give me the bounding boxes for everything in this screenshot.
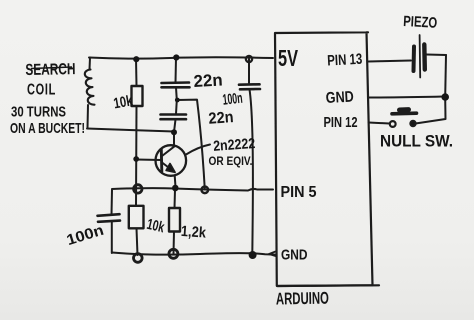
- label SEARCH: [25, 61, 75, 79]
- svg-text:COIL: COIL: [27, 82, 56, 99]
- node gnd-piezo-sw junction: [441, 93, 449, 101]
- svg-text:5V: 5V: [278, 45, 298, 71]
- wire GND right lead: [369, 97, 445, 98]
- svg-text:100n: 100n: [222, 90, 244, 109]
- wire piezo right vertical: [444, 55, 447, 97]
- svg-text:SEARCH: SEARCH: [25, 61, 75, 79]
- node base junction: [133, 156, 139, 162]
- svg-text:ON A BUCKET!: ON A BUCKET!: [10, 120, 85, 137]
- svg-text:GND: GND: [281, 247, 308, 264]
- piezo BZ1: [414, 35, 447, 78]
- svg-text:2n2222: 2n2222: [213, 136, 256, 155]
- svg-text:1,2k: 1,2k: [180, 223, 207, 242]
- wire PIN5 line: [112, 188, 273, 190]
- node gnd-1,2k junction: [169, 249, 178, 258]
- node pin5-emitter junction: [172, 185, 179, 192]
- wire base lead: [136, 159, 161, 162]
- arduino box U1: [275, 32, 373, 286]
- wire pointer to label: [186, 145, 210, 155]
- wire vertical 22n column: [174, 58, 177, 147]
- wire vertical 100n 5V column: [249, 59, 253, 254]
- capacitor 100n C3: [239, 84, 260, 89]
- wire branch caps midpoint to pin5 line: [177, 100, 205, 190]
- capacitor 22n C1: [162, 83, 190, 88]
- svg-text:30 TURNS: 30 TURNS: [11, 104, 66, 121]
- node 5V-22n junction: [173, 54, 179, 60]
- wire GND line bottom: [112, 253, 276, 255]
- node pin5-10k junction: [134, 185, 142, 193]
- node gnd-10k junction: [134, 254, 143, 263]
- node 5V-10k junction: [133, 56, 139, 62]
- resistor 10k bottom R2: [129, 206, 144, 229]
- node caps midpoint junction: [175, 98, 180, 103]
- svg-text:GND: GND: [325, 89, 354, 107]
- svg-text:OR EQIV.: OR EQIV.: [209, 154, 253, 168]
- svg-text:22n: 22n: [208, 109, 234, 128]
- svg-text:10k: 10k: [112, 92, 134, 112]
- transistor Q1 2n2222: [156, 145, 187, 187]
- node collector junction: [171, 129, 177, 135]
- node gnd-100n junction: [249, 251, 257, 259]
- resistor 10k top R1: [132, 86, 143, 106]
- node 5V-100n junction: [246, 56, 252, 62]
- svg-text:22n: 22n: [193, 70, 223, 90]
- resistor 1,2k R3: [169, 190, 180, 254]
- svg-text:NULL SW.: NULL SW.: [380, 132, 453, 151]
- svg-text:ARDUINO: ARDUINO: [276, 289, 329, 309]
- arrowhead gnd: [269, 252, 276, 257]
- search coil L1: [85, 58, 95, 129]
- svg-text:PIN 12: PIN 12: [324, 114, 358, 131]
- wire 5V top rail: [89, 57, 273, 58]
- svg-text:PIN 5: PIN 5: [281, 184, 317, 201]
- wire PIN13 lead: [369, 61, 412, 62]
- wire vertical base/10k column: [136, 58, 138, 255]
- null switch SW1: [390, 98, 446, 127]
- svg-text:PIN 13: PIN 13: [327, 51, 363, 70]
- wire coil bottom to collector node: [87, 129, 174, 132]
- wire PIN12 lead: [369, 123, 390, 124]
- node pin5-caps junction: [202, 187, 209, 194]
- capacitor 100n C4 branch: [111, 190, 114, 254]
- svg-text:PIEZO: PIEZO: [403, 13, 438, 32]
- capacitor 22n C2: [161, 115, 187, 120]
